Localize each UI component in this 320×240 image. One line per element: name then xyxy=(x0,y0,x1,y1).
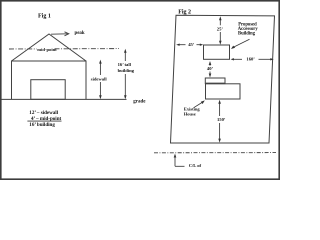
150' dimension arrow xyxy=(219,103,221,141)
house body walls xyxy=(12,61,87,99)
sidewall dimension arrow xyxy=(99,62,101,98)
door xyxy=(31,80,65,100)
pointer arrow to accessory building xyxy=(233,39,250,47)
svg-text:Fig 1: Fig 1 xyxy=(38,13,51,19)
svg-text:40’: 40’ xyxy=(207,66,214,71)
svg-text:25’: 25’ xyxy=(217,27,224,32)
svg-text:mid-point: mid-point xyxy=(37,47,57,52)
40' dimension arrow xyxy=(209,61,212,65)
svg-text:grade: grade xyxy=(133,99,146,104)
street centerline dash-dot xyxy=(154,152,276,154)
svg-text:16’ tall: 16’ tall xyxy=(118,62,132,67)
svg-text:45’: 45’ xyxy=(188,42,195,47)
svg-text:Building: Building xyxy=(238,32,256,37)
16' tall building dimension arrow xyxy=(124,51,126,98)
proposed accessory building rect xyxy=(204,45,230,59)
roof xyxy=(12,34,87,61)
svg-text:16’ building: 16’ building xyxy=(29,122,55,128)
25' dimension arrow xyxy=(219,19,221,42)
svg-text:building: building xyxy=(118,68,135,73)
svg-text:House: House xyxy=(184,112,196,117)
sum rule xyxy=(27,120,61,122)
svg-text:sidewall: sidewall xyxy=(91,77,108,82)
svg-text:150’: 150’ xyxy=(217,117,226,122)
svg-text:peak: peak xyxy=(75,31,85,36)
ground line xyxy=(2,98,127,100)
peak arrow xyxy=(51,32,69,36)
svg-text:160’: 160’ xyxy=(246,57,255,62)
C/L pointer arrow xyxy=(174,154,177,158)
page border xyxy=(1,1,279,179)
45' dimension arrow xyxy=(179,44,201,46)
existing house step (porch) xyxy=(205,78,225,84)
pointer arrow to existing house xyxy=(194,102,203,108)
160' dimension arrow xyxy=(233,58,271,60)
svg-text:Fig 2: Fig 2 xyxy=(178,9,191,15)
mid-point label xyxy=(37,47,54,52)
property boundary xyxy=(171,15,275,143)
mid-point dash-dot line xyxy=(9,48,119,50)
existing house main rect xyxy=(206,84,241,99)
svg-text:C/L of: C/L of xyxy=(189,163,202,168)
